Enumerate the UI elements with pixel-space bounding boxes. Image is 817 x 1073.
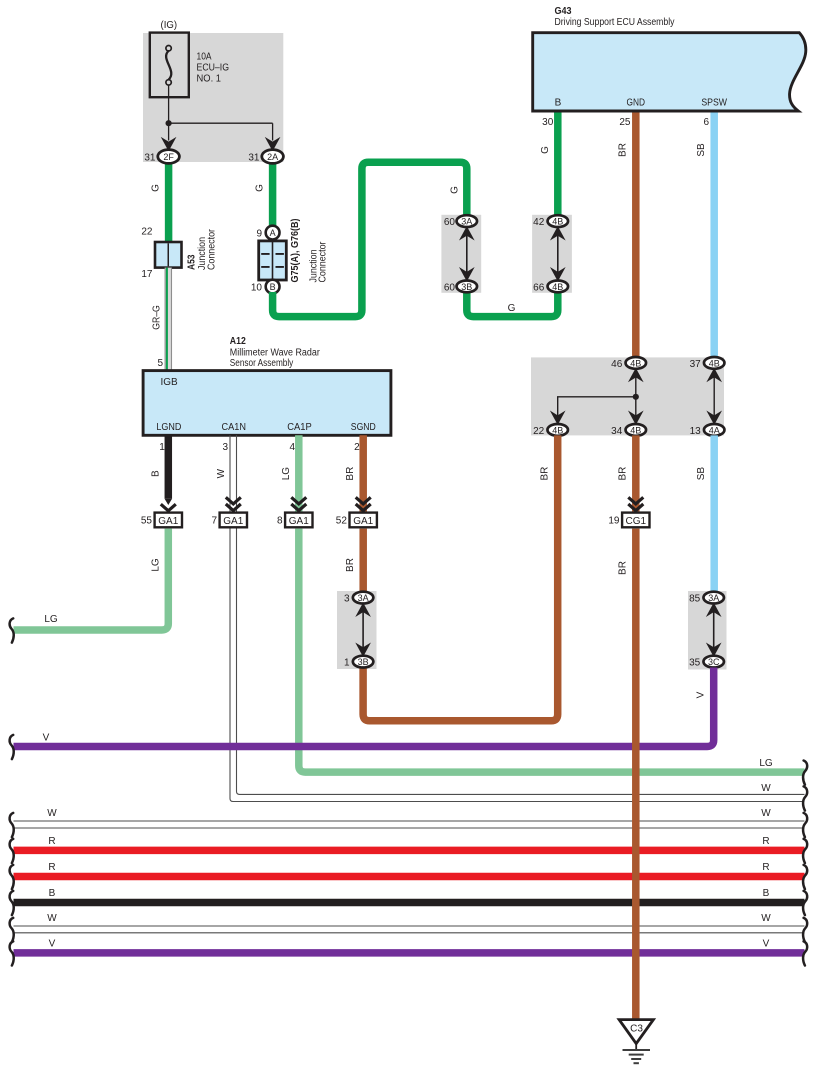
svg-text:BR: BR (345, 467, 356, 481)
wire SB from 13 4A to 85 3A (710, 435, 718, 594)
connector box 52 GA1 (350, 513, 377, 528)
svg-text:GA1: GA1 (353, 516, 373, 527)
svg-text:B: B (555, 98, 562, 109)
junction connector G75(A),G76(B) circle A (266, 226, 280, 240)
break squiggles bus W (10, 813, 14, 837)
svg-text:4B: 4B (552, 282, 563, 292)
svg-text:3C: 3C (708, 657, 720, 667)
oval connector 31 2A (262, 150, 284, 164)
junction dot (166, 120, 172, 126)
junction thin line 46 4B to 34 4B (635, 368, 637, 424)
bus wire V full width (14, 949, 805, 957)
oval connector 46 4B (626, 357, 647, 369)
svg-text:R: R (48, 836, 55, 847)
svg-text:V: V (43, 732, 50, 743)
svg-text:35: 35 (689, 658, 701, 669)
sensor A12 box (143, 371, 391, 436)
svg-text:C3: C3 (630, 1024, 643, 1035)
break squiggle right LG (803, 761, 807, 785)
wire LG from CA1P (295, 435, 303, 513)
wire W pair from CA1N (230, 435, 233, 801)
wire SB from G43 SPSW to 37 4B (710, 111, 718, 360)
svg-text:SGND: SGND (351, 422, 376, 433)
svg-text:Sensor Assembly: Sensor Assembly (230, 358, 293, 369)
svg-text:G: G (540, 146, 551, 154)
svg-text:13: 13 (690, 426, 702, 437)
oval connector 3 3A (353, 592, 374, 604)
svg-text:66: 66 (533, 282, 545, 293)
arrow down into 22 4B (552, 413, 563, 424)
wire BR from SGND (359, 435, 367, 513)
svg-text:R: R (762, 862, 769, 873)
svg-text:8: 8 (277, 515, 283, 526)
svg-text:Connector: Connector (318, 241, 329, 283)
connector box 7 GA1 (220, 513, 247, 528)
arrow up into 46 4B (630, 370, 641, 381)
wire LG from 8 GA1 down then right to edge (299, 529, 805, 773)
wire G serpentine from G76 B to 3A (273, 162, 467, 316)
wire LG from 55 GA1 to left edge (14, 529, 169, 630)
wire V from 35 3C down then left to edge (14, 668, 714, 747)
svg-text:46: 46 (611, 359, 623, 370)
svg-text:B: B (763, 888, 770, 899)
wire BR from 34 4B to CG1 (632, 435, 640, 513)
svg-text:W: W (47, 913, 57, 924)
ECU G43 box (533, 33, 806, 111)
connector box 55 GA1 (155, 513, 182, 528)
svg-text:(IG): (IG) (161, 20, 178, 31)
svg-text:BR: BR (618, 561, 629, 575)
svg-text:6: 6 (703, 117, 709, 128)
double arrow between 3 3A and 1 3B (362, 606, 364, 653)
svg-text:A53: A53 (187, 254, 198, 270)
svg-text:BR: BR (618, 467, 629, 481)
svg-text:W: W (216, 468, 227, 478)
svg-text:SB: SB (696, 467, 707, 481)
wire BR from 52 GA1 to 3 3A (359, 529, 367, 594)
svg-text:4B: 4B (630, 425, 641, 435)
bus wire B full width (14, 899, 805, 907)
arrow into 2A (267, 139, 278, 150)
svg-text:W: W (761, 913, 771, 924)
wire fuse to junction dot (169, 85, 273, 141)
svg-text:W: W (47, 808, 57, 819)
bus wire R second full width (14, 873, 805, 881)
svg-text:10A: 10A (197, 52, 212, 63)
svg-text:CA1P: CA1P (287, 422, 312, 433)
svg-text:Connector: Connector (207, 228, 218, 270)
svg-text:Millimeter Wave Radar: Millimeter Wave Radar (230, 348, 321, 359)
svg-text:V: V (763, 938, 770, 949)
connector pair gray box 3A/3B lower (x363) (337, 591, 377, 669)
svg-text:LG: LG (759, 758, 773, 769)
svg-text:19: 19 (608, 515, 620, 526)
wire G from 42 4B to G43 pin B (554, 111, 562, 218)
bus wire R full width (14, 847, 805, 855)
junction branch line to 22 4B (558, 397, 636, 424)
connector pair gray box 42/66 4B (x558) (532, 215, 572, 293)
svg-text:31: 31 (144, 152, 156, 163)
wire GR-G from A53 to A12 (165, 268, 172, 371)
svg-text:60: 60 (444, 282, 456, 293)
svg-text:3: 3 (344, 594, 350, 605)
svg-text:A: A (270, 228, 276, 238)
svg-text:LG: LG (44, 614, 58, 625)
svg-text:85: 85 (689, 594, 701, 605)
svg-text:60: 60 (444, 217, 456, 228)
svg-text:CA1N: CA1N (222, 422, 247, 433)
wire W pair horizontal from CA1N to right edge (233, 794, 805, 801)
svg-text:G: G (151, 184, 162, 192)
svg-text:BR: BR (540, 467, 551, 481)
arrow down into 13 4A (709, 413, 720, 424)
oval connector 22 4B (547, 424, 568, 436)
svg-text:2: 2 (354, 442, 360, 453)
wire BR from 22 4B down-left-up to 1 3B (363, 435, 558, 720)
svg-text:NO. 1: NO. 1 (197, 74, 222, 85)
svg-text:10: 10 (251, 283, 263, 294)
connector pair gray box 3A/3B (x467) (441, 215, 481, 293)
connector pair gray box 3A/3C lower right (x714) (688, 591, 727, 670)
svg-text:IGB: IGB (161, 377, 179, 388)
svg-text:G43: G43 (555, 6, 572, 17)
junction gray box 4B group (531, 357, 724, 435)
svg-text:17: 17 (141, 269, 153, 280)
svg-text:2F: 2F (163, 152, 174, 162)
svg-text:V: V (696, 691, 707, 698)
svg-text:52: 52 (336, 515, 348, 526)
oval connector 37 4B (704, 357, 725, 369)
svg-text:LGND: LGND (156, 422, 181, 433)
shield chevrons 7 GA1 (226, 497, 241, 510)
wire G from 2F to A53 (165, 157, 173, 243)
svg-text:BR: BR (618, 143, 629, 157)
svg-text:GA1: GA1 (158, 516, 178, 527)
arrow down into 34 4B (630, 413, 641, 424)
svg-text:R: R (762, 836, 769, 847)
svg-text:BR: BR (345, 558, 356, 572)
oval connector 60 3B (457, 281, 478, 293)
svg-text:4B: 4B (552, 425, 563, 435)
oval connector 66 4B (548, 281, 569, 293)
svg-text:3B: 3B (358, 657, 369, 667)
break squiggle left V (10, 735, 14, 759)
svg-text:LG: LG (150, 558, 161, 572)
svg-text:7: 7 (211, 515, 217, 526)
double arrow between 85 3A and 35 3C (713, 606, 715, 653)
fuse 10A ECU-IG NO.1 box (150, 33, 189, 98)
svg-text:B: B (270, 282, 276, 292)
svg-text:4B: 4B (552, 217, 563, 227)
bus wire W full width (14, 821, 805, 828)
svg-text:5: 5 (157, 358, 163, 369)
arrow up into 37 4B (709, 370, 720, 381)
shield chevrons 52 GA1 (356, 497, 371, 510)
fuse element symbol (166, 51, 171, 80)
oval connector 34 4B (626, 424, 647, 436)
junction dot (633, 394, 639, 400)
wire BR from G43 GND to 46 4B (632, 111, 640, 360)
connector box 19 CG1 (622, 513, 649, 528)
svg-text:55: 55 (141, 515, 153, 526)
shield chevrons 19 CG1 (628, 497, 643, 510)
oval connector 42 4B (548, 215, 569, 227)
oval connector 85 3A (703, 592, 724, 604)
oval connector 31 2F (158, 150, 180, 164)
svg-text:30: 30 (542, 117, 554, 128)
svg-text:GND: GND (627, 98, 646, 109)
svg-text:4B: 4B (630, 358, 641, 368)
svg-text:SPSW: SPSW (701, 98, 727, 109)
wire G from 3B to 66 4B (467, 290, 558, 317)
svg-text:W: W (761, 783, 771, 794)
oval connector 13 4A (704, 424, 725, 436)
svg-text:Driving Support ECU Assembly: Driving Support ECU Assembly (555, 17, 675, 28)
svg-text:SB: SB (696, 143, 707, 157)
svg-text:ECU–IG: ECU–IG (197, 63, 230, 74)
svg-text:GA1: GA1 (289, 516, 309, 527)
bus wire W second full width (14, 926, 805, 933)
svg-text:G75(A), G76(B): G75(A), G76(B) (290, 219, 301, 283)
svg-text:W: W (761, 808, 771, 819)
svg-text:CG1: CG1 (626, 516, 647, 527)
svg-text:B: B (49, 888, 56, 899)
svg-text:G: G (449, 186, 460, 194)
thin line 37 4B to 13 4A (713, 368, 715, 424)
svg-text:22: 22 (141, 227, 153, 238)
junction connector A53 (155, 242, 182, 268)
svg-text:25: 25 (619, 117, 631, 128)
svg-text:1: 1 (159, 442, 165, 453)
oval connector 1 3B (353, 656, 374, 668)
oval connector 35 3C (703, 656, 724, 668)
svg-text:31: 31 (248, 152, 260, 163)
oval connector 60 3A (457, 215, 478, 227)
svg-text:R: R (48, 862, 55, 873)
svg-text:4B: 4B (709, 358, 720, 368)
svg-text:3: 3 (222, 442, 228, 453)
shield chevrons 8 GA1 (291, 497, 306, 510)
connector box 8 GA1 (285, 513, 312, 528)
svg-text:37: 37 (690, 359, 702, 370)
svg-text:A12: A12 (230, 336, 246, 347)
wire G from 2A to G75 A (269, 157, 277, 242)
double arrow between 3A and 3B (466, 230, 468, 278)
svg-text:1: 1 (344, 658, 350, 669)
svg-text:GA1: GA1 (223, 516, 243, 527)
wire B from LGND to 55 GA1 (165, 435, 173, 499)
junction connector G75/G76 circle B (266, 280, 280, 294)
svg-text:G: G (508, 303, 516, 314)
svg-text:B: B (150, 470, 161, 477)
svg-text:LG: LG (281, 467, 292, 481)
wire BR from CG1 to ground C3 (632, 529, 640, 1019)
svg-text:3B: 3B (461, 282, 472, 292)
break squiggle right W1 (803, 786, 807, 810)
svg-text:3A: 3A (708, 593, 719, 603)
junction connector G75/G76 grid box (259, 241, 287, 280)
svg-text:42: 42 (533, 217, 545, 228)
svg-text:4: 4 (289, 442, 295, 453)
svg-text:22: 22 (533, 426, 545, 437)
shield chevron 55 GA1 (161, 504, 176, 511)
svg-text:3A: 3A (461, 217, 472, 227)
svg-text:3A: 3A (358, 593, 369, 603)
svg-text:34: 34 (611, 426, 623, 437)
fuse block gray background (143, 33, 283, 162)
arrow into 2F (163, 139, 174, 150)
svg-text:GR–G: GR–G (152, 305, 163, 330)
svg-text:G: G (255, 184, 266, 192)
svg-text:9: 9 (256, 229, 262, 240)
break squiggle left LG (10, 618, 14, 642)
svg-text:V: V (49, 938, 56, 949)
svg-text:4A: 4A (709, 425, 720, 435)
svg-text:2A: 2A (267, 152, 278, 162)
double arrow between 42 4B and 66 4B (557, 230, 559, 278)
ground C3 symbol (619, 1020, 653, 1044)
